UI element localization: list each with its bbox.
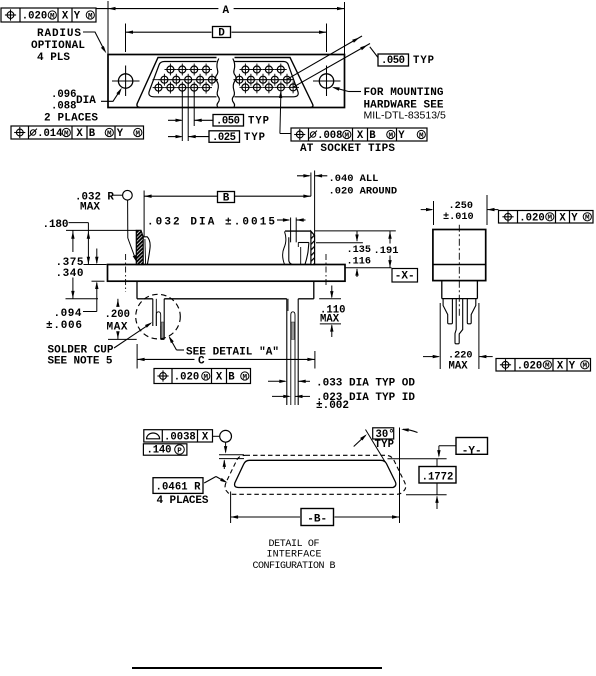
dimension C	[137, 356, 315, 368]
svg-text:M: M	[389, 132, 394, 140]
svg-text:MAX: MAX	[449, 361, 469, 373]
end view underbody	[442, 281, 478, 299]
feature control frame: position .020 (M) X Y (M) - top left	[1, 8, 96, 23]
flange bottom extension line left	[92, 280, 105, 282]
30 deg leader arrow on slant	[354, 434, 367, 446]
-B- left extension line	[230, 492, 232, 524]
svg-text:.014: .014	[37, 128, 63, 140]
feature control frame: profile .0038 X	[144, 430, 213, 444]
socket bore extension lines	[291, 218, 297, 243]
break line right (jagged)	[232, 59, 236, 107]
svg-text:TYP: TYP	[244, 132, 265, 144]
svg-text:FOR MOUNTING: FOR MOUNTING	[364, 87, 444, 99]
svg-text:Y: Y	[569, 360, 576, 372]
svg-text:-B-: -B-	[307, 513, 327, 525]
svg-text:.140: .140	[147, 445, 172, 457]
svg-text:2 PLACES: 2 PLACES	[44, 113, 98, 125]
svg-text:P: P	[177, 447, 182, 455]
feature control frame: position dia .008 (M) X B (M) Y (M)	[291, 128, 427, 142]
right socket cavity break edge (jagged)	[283, 231, 286, 264]
svg-text:DETAIL OF: DETAIL OF	[269, 539, 320, 550]
svg-text:-Y-: -Y-	[462, 445, 482, 457]
dimension A left extension line	[107, 1, 109, 55]
svg-text:.050: .050	[381, 55, 405, 67]
C right extension line	[314, 351, 316, 369]
svg-text:M: M	[50, 13, 55, 21]
balloon leader arrow down	[224, 442, 227, 453]
dimension .110 MAX arrows	[319, 286, 341, 338]
svg-text:A: A	[222, 5, 229, 17]
insulator top extension line left	[66, 229, 136, 231]
svg-text:X: X	[216, 372, 223, 384]
svg-text:AT SOCKET TIPS: AT SOCKET TIPS	[300, 143, 395, 155]
C left extension line	[136, 344, 138, 369]
svg-text:X: X	[557, 360, 564, 372]
dimension .025 TYP horizontal	[168, 131, 265, 144]
bottom boundary extension line right	[406, 494, 447, 496]
svg-text:SEE NOTE 5: SEE NOTE 5	[48, 356, 113, 368]
svg-text:M: M	[583, 363, 588, 371]
label .375 .340	[56, 257, 84, 280]
connector shell front view body	[108, 55, 345, 108]
dimension .180 vertical	[87, 223, 90, 265]
svg-text:MIL-DTL-83513/5: MIL-DTL-83513/5	[364, 110, 446, 122]
diagonal row line 1 with arrowhead	[287, 36, 362, 79]
right solder cup / wire	[287, 299, 298, 405]
svg-text:B: B	[223, 193, 230, 205]
svg-text:.0461 R: .0461 R	[156, 482, 202, 494]
dimension .050 TYP (diagonal pitch) box	[378, 54, 434, 67]
svg-text:TYP: TYP	[248, 116, 269, 128]
svg-text:TYP: TYP	[413, 55, 434, 67]
label SEE DETAIL A	[186, 347, 279, 359]
datum -X- box	[392, 269, 418, 283]
svg-text:CONFIGURATION B: CONFIGURATION B	[253, 561, 336, 572]
30 deg vertical extension line	[399, 428, 401, 524]
svg-text:OPTIONAL: OPTIONAL	[31, 40, 85, 52]
svg-text:.116: .116	[347, 257, 371, 268]
connector flange side view	[108, 265, 346, 282]
svg-text:Y: Y	[74, 11, 81, 23]
dimension .375/.340 vertical	[71, 230, 74, 298]
dimension A right extension line	[344, 2, 346, 55]
svg-text:±.010: ±.010	[443, 212, 474, 223]
svg-text:M: M	[419, 132, 424, 140]
insert outer trapezoid right portion	[235, 58, 313, 108]
socket contacts left group	[153, 64, 219, 94]
sheet separator line	[132, 667, 382, 669]
svg-text:.094: .094	[54, 308, 82, 320]
note RADIUS OPTIONAL 4 PLS	[31, 28, 85, 64]
left mounting hole	[112, 66, 140, 97]
svg-text:M: M	[136, 130, 141, 138]
label .200 MAX	[105, 309, 130, 334]
svg-text:.040 ALL: .040 ALL	[329, 173, 379, 185]
svg-text:-X-: -X-	[395, 271, 415, 283]
svg-text:.1772: .1772	[422, 471, 454, 483]
dimension .200 MAX vertical	[116, 299, 119, 340]
30 deg leader arrow on vertical	[401, 428, 417, 432]
profile tolerance extension lines (left of trapezoid)	[219, 455, 244, 469]
dimension .250 extension lines	[434, 195, 488, 225]
svg-text:.250: .250	[449, 201, 473, 212]
interface trapezoid dashed boundary	[225, 455, 406, 494]
dimension .094 vertical	[95, 249, 98, 312]
svg-text:.020 AROUND: .020 AROUND	[329, 186, 398, 198]
balloon .032 R MAX	[75, 190, 132, 213]
svg-text:Y: Y	[398, 130, 405, 142]
insert inner face left portion	[149, 62, 217, 97]
labels .135 .116 .191	[347, 245, 399, 268]
svg-text:B: B	[89, 128, 96, 140]
svg-text:M: M	[64, 130, 69, 138]
dimension D right extension line	[326, 24, 328, 53]
break line left (jagged)	[216, 59, 220, 107]
label .250 +-.010	[443, 201, 474, 223]
label .032 DIA +-.0015	[147, 217, 275, 229]
insulator top edge right piece	[285, 230, 311, 232]
extension line insulator wall left edge up	[310, 173, 312, 197]
dimension .050 TYP horizontal	[168, 115, 269, 128]
svg-text:X: X	[559, 212, 566, 224]
label 30 deg TYP box	[373, 428, 395, 451]
arrows for .032 DIA	[277, 218, 306, 221]
svg-text:.191: .191	[374, 245, 399, 257]
svg-text:M: M	[204, 374, 209, 382]
svg-text:DIA: DIA	[76, 95, 96, 107]
svg-text:±.006: ±.006	[46, 320, 82, 332]
right insulator wall (hatched)	[311, 231, 315, 264]
underbody below flange (side view)	[137, 281, 314, 299]
label .110 MAX	[320, 305, 345, 326]
left solder cup	[153, 299, 164, 340]
svg-text:.180: .180	[43, 219, 69, 231]
top edge extension line right	[388, 458, 447, 460]
interface trapezoid solid outline	[235, 460, 396, 487]
dimension .023 DIA TYP ID	[272, 392, 415, 404]
leader from .032 R balloon to insulator base	[128, 200, 137, 263]
insert outer trapezoid left portion	[137, 58, 217, 108]
title DETAIL OF INTERFACE CONFIGURATION B	[253, 539, 336, 572]
svg-text:M: M	[88, 13, 93, 21]
right mounting hole centerline (side view)	[325, 254, 327, 287]
svg-text:.088: .088	[51, 101, 76, 113]
leader to .050 TYP box upper	[370, 47, 378, 58]
feature control frame: position .020 (M) X B (M)	[154, 369, 251, 384]
leader from SOLDER CUP to cup	[114, 322, 152, 348]
leader from socket tip to FCF .008	[279, 91, 291, 134]
svg-text:.0038: .0038	[164, 432, 196, 444]
label .096 .088 DIA 2 PLACES	[44, 89, 98, 125]
dimension .1772	[419, 459, 456, 509]
datum -X- extension line	[346, 267, 392, 269]
svg-text:X: X	[62, 11, 69, 23]
svg-text:M: M	[345, 132, 350, 140]
leader from DIA to left mounting hole	[101, 88, 122, 102]
svg-text:.025: .025	[212, 132, 236, 144]
svg-text:.135: .135	[347, 245, 371, 256]
end view right pin	[467, 299, 476, 324]
leader from mounting note to right hole	[332, 87, 361, 91]
right slant extension line	[366, 430, 386, 463]
svg-text:.020: .020	[22, 11, 47, 23]
insert inner face right portion	[235, 62, 299, 97]
svg-text:.050: .050	[216, 116, 240, 128]
svg-text:.008: .008	[317, 130, 342, 142]
svg-text:4 PLS: 4 PLS	[37, 52, 70, 64]
socket face extension line right	[316, 242, 363, 244]
label .180	[43, 219, 89, 231]
svg-text:RADIUS: RADIUS	[37, 28, 81, 40]
dimension .135/.116 arrows	[355, 231, 358, 277]
svg-text:X: X	[76, 128, 83, 140]
dimension -B-	[231, 509, 400, 526]
svg-text:M: M	[243, 374, 248, 382]
leader from .0461 R to corner	[204, 477, 227, 484]
label .0461 R 4 PLACES	[153, 478, 209, 507]
label AT SOCKET TIPS	[300, 143, 395, 155]
svg-text:X: X	[357, 130, 364, 142]
label .094 +-.006	[46, 308, 97, 332]
svg-text:B: B	[228, 372, 235, 384]
datum -Y- leader	[437, 446, 456, 458]
dimension B line with box	[144, 192, 311, 205]
detail circle A (dashed)	[136, 294, 181, 339]
extension line insulator wall right edge up	[314, 171, 316, 236]
svg-text:B: B	[369, 130, 376, 142]
solder-cup bottom extension line left	[66, 298, 99, 300]
svg-text:C: C	[198, 356, 205, 368]
dimension .033 DIA TYP OD	[268, 378, 415, 390]
flange top extension line left	[84, 264, 107, 266]
left socket contact outline	[143, 237, 150, 264]
wire end extension line left	[108, 338, 137, 340]
svg-text:Y: Y	[117, 128, 124, 140]
right socket contact outline	[289, 237, 309, 264]
end view left pin	[443, 299, 452, 324]
end view middle pin (long)	[455, 299, 463, 344]
label .040 ALL .020 AROUND	[329, 173, 398, 198]
label SOLDER CUP SEE NOTE 5	[48, 345, 114, 368]
svg-text:INTERFACE: INTERFACE	[267, 550, 322, 561]
note FOR MOUNTING HARDWARE SEE MIL-DTL-83513/5	[364, 87, 446, 122]
dimension D line with box	[126, 27, 327, 40]
dimension A line	[96, 5, 345, 17]
leader from SEE DETAIL to cup	[169, 336, 184, 350]
extension lines from contacts to pitch dimensions	[182, 84, 194, 142]
svg-text:Y: Y	[571, 212, 578, 224]
svg-text:.020: .020	[517, 360, 542, 372]
feature control frame: position .020 (M) X Y (M) - end view top	[499, 211, 594, 225]
right mounting hole	[313, 66, 341, 97]
svg-text:D: D	[218, 28, 225, 40]
end view centerline (dashed)	[458, 225, 460, 317]
dimension .191 vertical	[388, 231, 391, 267]
svg-text:M: M	[545, 363, 550, 371]
left mounting hole centerline (side view)	[125, 254, 127, 292]
feature control frame: position dia .014 (M) X B (M) Y (M)	[11, 126, 144, 140]
datum -Y- box	[456, 438, 488, 458]
balloon circle for detail	[213, 430, 232, 442]
svg-text:.020: .020	[174, 372, 199, 384]
diagonal row line 2 with arrowhead	[293, 44, 370, 88]
frame .140 (P)	[143, 444, 187, 457]
label .220 MAX	[448, 351, 472, 373]
svg-text:M: M	[585, 215, 590, 223]
dimension .220 arrows	[423, 355, 493, 358]
svg-text:±.002: ±.002	[316, 400, 349, 412]
left insulator wall (hatched)	[136, 230, 143, 264]
svg-text:.032 DIA ±.0015: .032 DIA ±.0015	[147, 217, 275, 229]
svg-text:.096: .096	[51, 89, 76, 101]
dimension .040 wall thickness arrows	[297, 174, 327, 177]
feature control frame: position .020 (M) X Y (M) - end view bottom	[496, 359, 591, 373]
svg-text:4 PLACES: 4 PLACES	[157, 495, 209, 507]
label +-.002	[316, 400, 349, 412]
svg-text:MAX: MAX	[80, 202, 100, 214]
svg-text:M: M	[107, 130, 112, 138]
dimension D left extension line	[125, 24, 127, 53]
leader from RADIUS note to connector corner	[83, 32, 106, 53]
svg-text:.200: .200	[105, 309, 130, 321]
svg-text:M: M	[548, 215, 553, 223]
end view body	[433, 230, 486, 281]
insulator top extension line right	[315, 230, 396, 232]
dimension .220 extension lines	[440, 303, 479, 369]
svg-text:.020: .020	[519, 212, 544, 224]
dimension .250 arrows	[421, 208, 499, 211]
socket contacts right group	[234, 64, 300, 94]
svg-text:.033 DIA TYP OD: .033 DIA TYP OD	[316, 378, 415, 390]
svg-text:.340: .340	[56, 268, 84, 280]
svg-text:X: X	[202, 432, 209, 444]
dimension B left extension line	[143, 191, 145, 237]
